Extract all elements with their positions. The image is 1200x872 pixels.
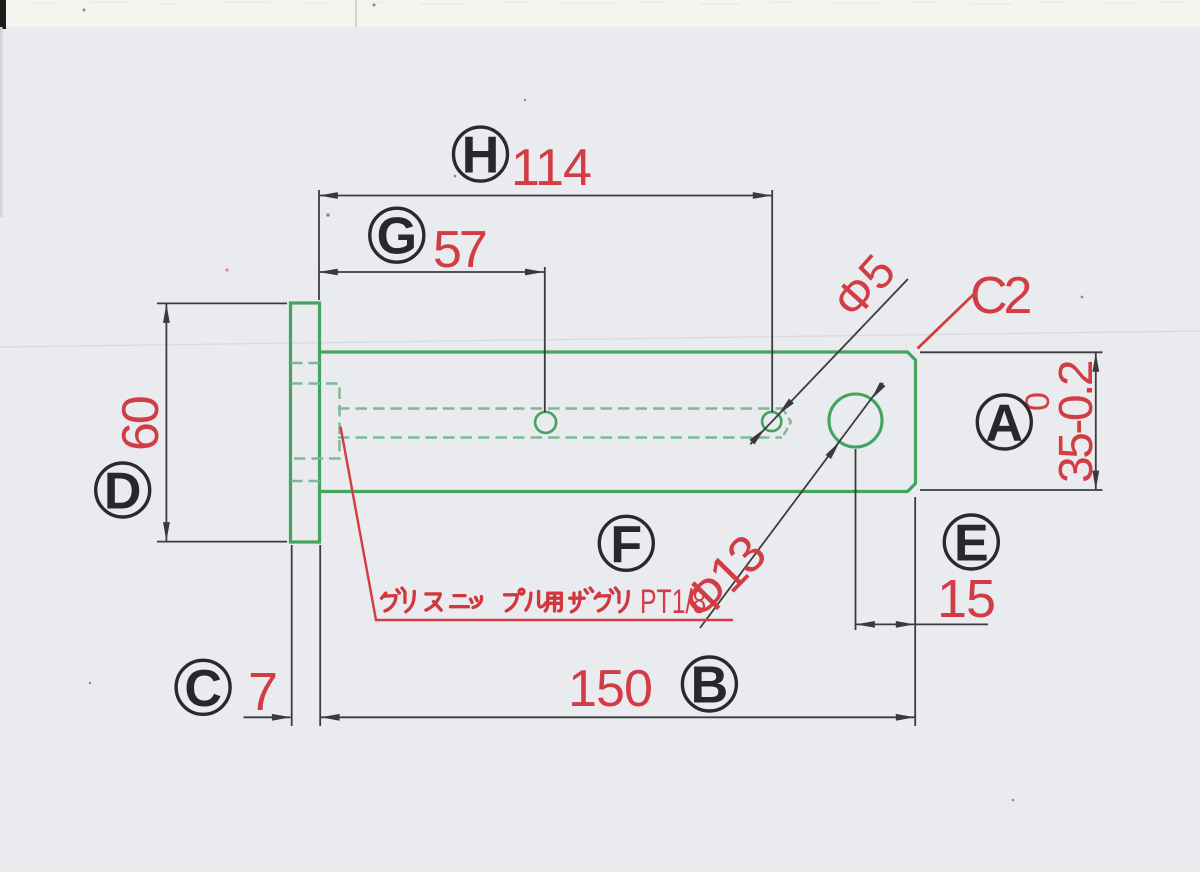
dim 35 vertical line: [1095, 353, 1097, 490]
svg-text:C: C: [184, 660, 222, 718]
dim 35 bottom extension: [920, 489, 1103, 491]
mid grease hole (green circle): [535, 412, 556, 433]
phi13 arrow lower: [826, 442, 840, 459]
left scan edge: [0, 27, 3, 217]
shared right extension (E and B): [914, 497, 916, 726]
svg-text:F: F: [610, 516, 642, 574]
dim G arrow left: [319, 269, 338, 276]
dim B arrow right: [896, 714, 915, 721]
scan specks: [83, 4, 1084, 802]
dim D arrow up: [163, 304, 170, 323]
svg-text:D: D: [104, 463, 142, 521]
svg-text:G: G: [377, 208, 417, 266]
svg-text:15: 15: [937, 569, 995, 629]
balloon C: [176, 660, 230, 718]
hidden bore drill cone tip (dashed green): [782, 408, 791, 439]
svg-text:A: A: [986, 395, 1024, 453]
dim E line: [856, 623, 988, 625]
hole phi13 (green circle): [829, 394, 882, 447]
svg-text:57: 57: [433, 221, 486, 279]
dim 35 arrow down: [1092, 471, 1099, 490]
dim H right extension to phi5: [771, 190, 773, 412]
balloon H: [454, 127, 508, 185]
dim H arrow left: [319, 192, 338, 199]
dim E arrow left: [856, 621, 875, 628]
dim D arrow down: [163, 522, 170, 541]
dim D top extension: [157, 302, 287, 304]
dim B arrow left: [321, 714, 340, 721]
balloon A: [977, 395, 1031, 453]
svg-text:114: 114: [511, 139, 591, 197]
dim G right extension to mid hole: [544, 267, 546, 412]
balloon D: [96, 463, 150, 521]
dim E arrow right: [896, 621, 915, 628]
hidden thread line upper (dashed green): [291, 362, 320, 365]
hidden thread line lower (dashed green): [291, 480, 320, 483]
dim H arrow right: [753, 192, 772, 199]
dim D bottom extension: [157, 541, 287, 543]
dim G line: [319, 271, 544, 273]
leader grease nipple note (red): [341, 427, 734, 621]
hidden bore top line (dashed green): [338, 407, 783, 410]
svg-text:E: E: [954, 515, 989, 573]
balloon B: [682, 657, 736, 715]
balloon E: [944, 515, 998, 573]
black scan corner mark: [0, 0, 6, 29]
phi5 arrow upper: [778, 399, 794, 415]
faint band seam: [355, 0, 357, 27]
svg-text:0: 0: [1019, 392, 1057, 411]
top scan band: [0, 0, 1200, 27]
leader line phi5: [750, 279, 908, 444]
dim G arrow right: [525, 269, 544, 276]
dim D vertical line: [165, 303, 167, 541]
phi13 arrow upper: [871, 382, 885, 399]
part flange (green rectangle): [291, 303, 320, 542]
dim 35 arrow up: [1092, 353, 1099, 372]
svg-text:C2: C2: [970, 267, 1031, 325]
flange left face extension: [291, 545, 293, 726]
dim E left extension from hole: [855, 449, 857, 630]
svg-text:150: 150: [568, 660, 652, 718]
dim B line: [321, 716, 915, 718]
top edge faint text artifacts: [30, 2, 1185, 4]
hidden counterbore rect (dashed green): [291, 384, 340, 459]
hole phi5 (green circle): [762, 412, 781, 431]
svg-text:7: 7: [248, 662, 278, 722]
extension at flange right face: [318, 190, 320, 300]
note text: grease nipple counterbore PT1/8 (katakana): [382, 588, 629, 612]
faint fold line: [0, 331, 1200, 347]
red speck: [225, 268, 228, 271]
leader C2 (red): [918, 294, 975, 349]
hidden bore bottom line (dashed green): [338, 436, 782, 439]
dim C(7) outside segment: [244, 716, 291, 718]
balloon F: [599, 516, 653, 574]
flange right face extension below: [319, 545, 321, 726]
svg-text:60: 60: [112, 397, 170, 451]
dim C arrow: [272, 714, 291, 721]
dim H line: [319, 195, 772, 197]
svg-text:35-0.2: 35-0.2: [1050, 361, 1103, 483]
leader line phi13: [700, 383, 883, 628]
part shaft outline (green): [320, 352, 916, 492]
svg-text:B: B: [691, 657, 729, 715]
svg-text:H: H: [462, 127, 500, 185]
svg-text:PT1/8: PT1/8: [640, 583, 706, 621]
dim 35 top extension: [920, 351, 1103, 353]
balloon G: [370, 208, 424, 266]
phi5 arrow lower: [750, 428, 766, 444]
